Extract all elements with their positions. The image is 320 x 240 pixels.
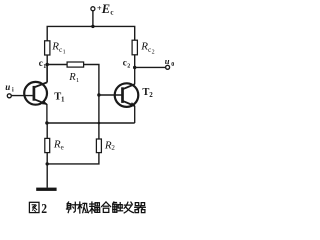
label Re	[53, 138, 64, 151]
glyph 图	[29, 202, 39, 212]
glyph 发	[124, 202, 133, 213]
svg-text:c: c	[39, 58, 43, 68]
node T2 base	[97, 93, 100, 96]
resistor Rc2	[132, 40, 137, 55]
glyph 器	[135, 203, 146, 213]
transistor T2	[115, 68, 139, 124]
label T1	[54, 92, 65, 104]
glyph 极	[78, 202, 88, 213]
svg-text:i: i	[12, 87, 14, 93]
resistor R2	[96, 139, 101, 153]
svg-text:2: 2	[127, 64, 130, 70]
svg-text:u: u	[5, 82, 10, 92]
wire Re to ground	[46, 153, 48, 188]
wire Rc2 to c2	[134, 55, 136, 68]
wire c2 to output	[135, 66, 166, 68]
label +Ec	[97, 2, 114, 16]
caption: 图2 射极耦合触发器	[29, 202, 39, 212]
svg-text:2: 2	[149, 91, 153, 99]
label R1	[68, 72, 79, 84]
node bottom rail junction	[46, 162, 49, 165]
svg-text:R: R	[140, 40, 148, 52]
node crossing R2	[98, 122, 101, 125]
wire base to R2	[98, 95, 100, 139]
node c2	[133, 66, 136, 69]
glyph 触	[113, 202, 123, 212]
terminal +Ec	[91, 7, 95, 11]
transistor T1	[24, 65, 47, 123]
wire R2 to bottom rail	[47, 153, 99, 164]
svg-text:1: 1	[61, 96, 65, 104]
node c1	[46, 63, 49, 66]
label R2	[104, 139, 116, 152]
label Rc1	[51, 40, 65, 55]
wire Ec drop	[92, 11, 94, 27]
svg-text:2: 2	[41, 202, 47, 217]
wire rail to Re	[46, 123, 48, 138]
svg-text:0: 0	[171, 62, 174, 68]
glyph 耦	[90, 202, 100, 213]
svg-text:c: c	[110, 8, 113, 16]
resistor Re	[45, 138, 50, 152]
svg-text:u: u	[165, 56, 170, 66]
svg-text:E: E	[101, 2, 110, 16]
label u0	[165, 56, 174, 68]
glyph 合	[102, 202, 111, 212]
svg-text:c: c	[123, 57, 127, 67]
wire u1 input lead	[11, 95, 32, 97]
label c2	[123, 57, 131, 69]
label Rc2	[140, 40, 154, 55]
label T2	[142, 87, 153, 99]
svg-text:1: 1	[76, 77, 79, 84]
wire T2 base lead	[99, 94, 123, 96]
svg-text:e: e	[61, 143, 64, 151]
node Ec junction	[91, 25, 94, 28]
wire top supply rail	[47, 26, 135, 40]
terminal u1	[7, 94, 11, 98]
svg-text:2: 2	[111, 144, 115, 152]
glyph 射	[67, 202, 77, 213]
svg-text:R: R	[51, 40, 59, 52]
wire R1 to T2 base	[84, 65, 99, 96]
wire emitter rail	[47, 122, 135, 124]
label u1	[5, 82, 14, 94]
svg-text:1: 1	[63, 49, 66, 55]
label c1	[39, 58, 46, 70]
wire c1 to R1	[47, 64, 67, 66]
ground	[36, 188, 56, 191]
svg-text:1: 1	[43, 64, 46, 70]
wire Rc1 to c1	[46, 55, 48, 83]
terminal u0	[166, 65, 170, 69]
resistor R1	[67, 62, 84, 67]
svg-text:2: 2	[152, 49, 155, 55]
node emitter left	[45, 121, 48, 124]
resistor Rc1	[45, 41, 50, 55]
